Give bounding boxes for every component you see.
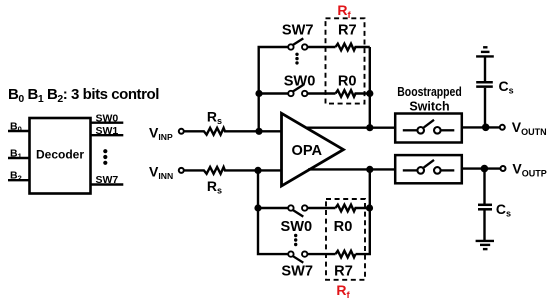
svg-text:R7: R7 [334,263,353,279]
terminal VINP [179,129,184,134]
wire capacitor to ground bottom [483,209,485,241]
wire output SW0 stub [91,121,124,123]
svg-text:SW0: SW0 [280,219,312,235]
wire top feedback left vertical [259,47,288,131]
switch SW0 top [288,85,307,96]
terminal VINN [179,168,184,173]
wire bottom upper branch left [258,207,288,209]
bootstrapped switch box top [395,114,462,143]
ellipsis dots bottom switches [294,234,297,246]
svg-text:B0 B1 B2: 3 bits control: B0 B1 B2: 3 bits control [8,86,159,105]
wire input B0 stub [8,130,30,132]
decoder U1 box [30,118,91,194]
junction top lower branch right [366,90,373,97]
wire VOUTN to capacitor [484,88,486,128]
svg-text:SW0: SW0 [96,112,119,124]
svg-text:SW7: SW7 [281,263,313,279]
svg-text:SW7: SW7 [96,174,119,186]
svg-text:Decoder: Decoder [36,147,84,161]
wire input B1 stub [8,157,30,159]
wire output SW7 stub [91,183,124,185]
ground top (inverted) [476,47,494,56]
junction VINN node [254,167,261,174]
wire bottom feedback left vertical [258,170,288,254]
svg-text:R0: R0 [334,219,353,235]
ellipsis dots decoder outputs [103,149,107,165]
bootstrapped switch box bottom [395,155,462,183]
wire OPA bottom output [308,168,395,170]
svg-text:R0: R0 [338,74,357,90]
wire VOUTP to capacitor [483,169,485,205]
wire bottom box output [462,167,501,169]
wire OPA top output [306,126,396,128]
ground bottom [476,241,494,249]
svg-text:Switch: Switch [409,100,449,114]
wire top feedback right vertical [369,47,371,128]
wire input B2 stub [8,179,30,181]
wire top box output [462,126,500,128]
junction bottom upper branch right [366,204,373,211]
wire SW7 to R7 bottom [307,253,335,255]
wire bottom feedback right vertical [356,169,370,254]
resistor R7 top [336,44,370,51]
terminal VOUTN [500,125,505,130]
resistor R7 bottom [336,251,356,258]
resistor Rs bottom (with input wire) [185,167,282,174]
switch SW0 bottom [288,205,307,216]
junction VOUTN node [482,124,490,132]
op-amp OPA [282,113,344,186]
capacitor Cs bottom [478,205,492,210]
wire SW0 to R0 [307,92,335,94]
resistor R0 bottom [336,205,370,212]
svg-text:OPA: OPA [292,143,323,159]
dashed box Rf top [326,18,365,103]
junction top lower branch left [255,90,262,97]
capacitor Cs top [476,82,493,86]
wire SW7 to R7 [307,46,335,48]
switch SW7 bottom [288,251,307,262]
junction bottom upper branch left [254,204,261,211]
dashed box Rf bottom [326,199,365,280]
junction top output node [366,124,373,131]
resistor Rs top (with input wire) [185,128,282,135]
junction bottom output node [366,166,373,173]
svg-text:Boostrapped: Boostrapped [397,85,462,99]
wire output SW1 stub [91,134,124,136]
switch symbol inside top box [403,120,455,134]
switch symbol inside bottom box [403,160,455,174]
junction VINP node [255,128,262,135]
ellipsis dots top switches [295,53,298,65]
junction VOUTP node [481,165,489,173]
wire SW0 to R0 bottom [307,207,335,209]
wire capacitor to ground top [484,56,486,82]
svg-text:SW7: SW7 [282,22,314,38]
resistor R0 top [336,90,370,97]
terminal VOUTP [501,166,506,171]
wire top lower branch left [259,92,288,94]
svg-text:SW1: SW1 [96,125,119,137]
switch SW7 top [288,38,307,49]
svg-text:R7: R7 [338,22,357,38]
